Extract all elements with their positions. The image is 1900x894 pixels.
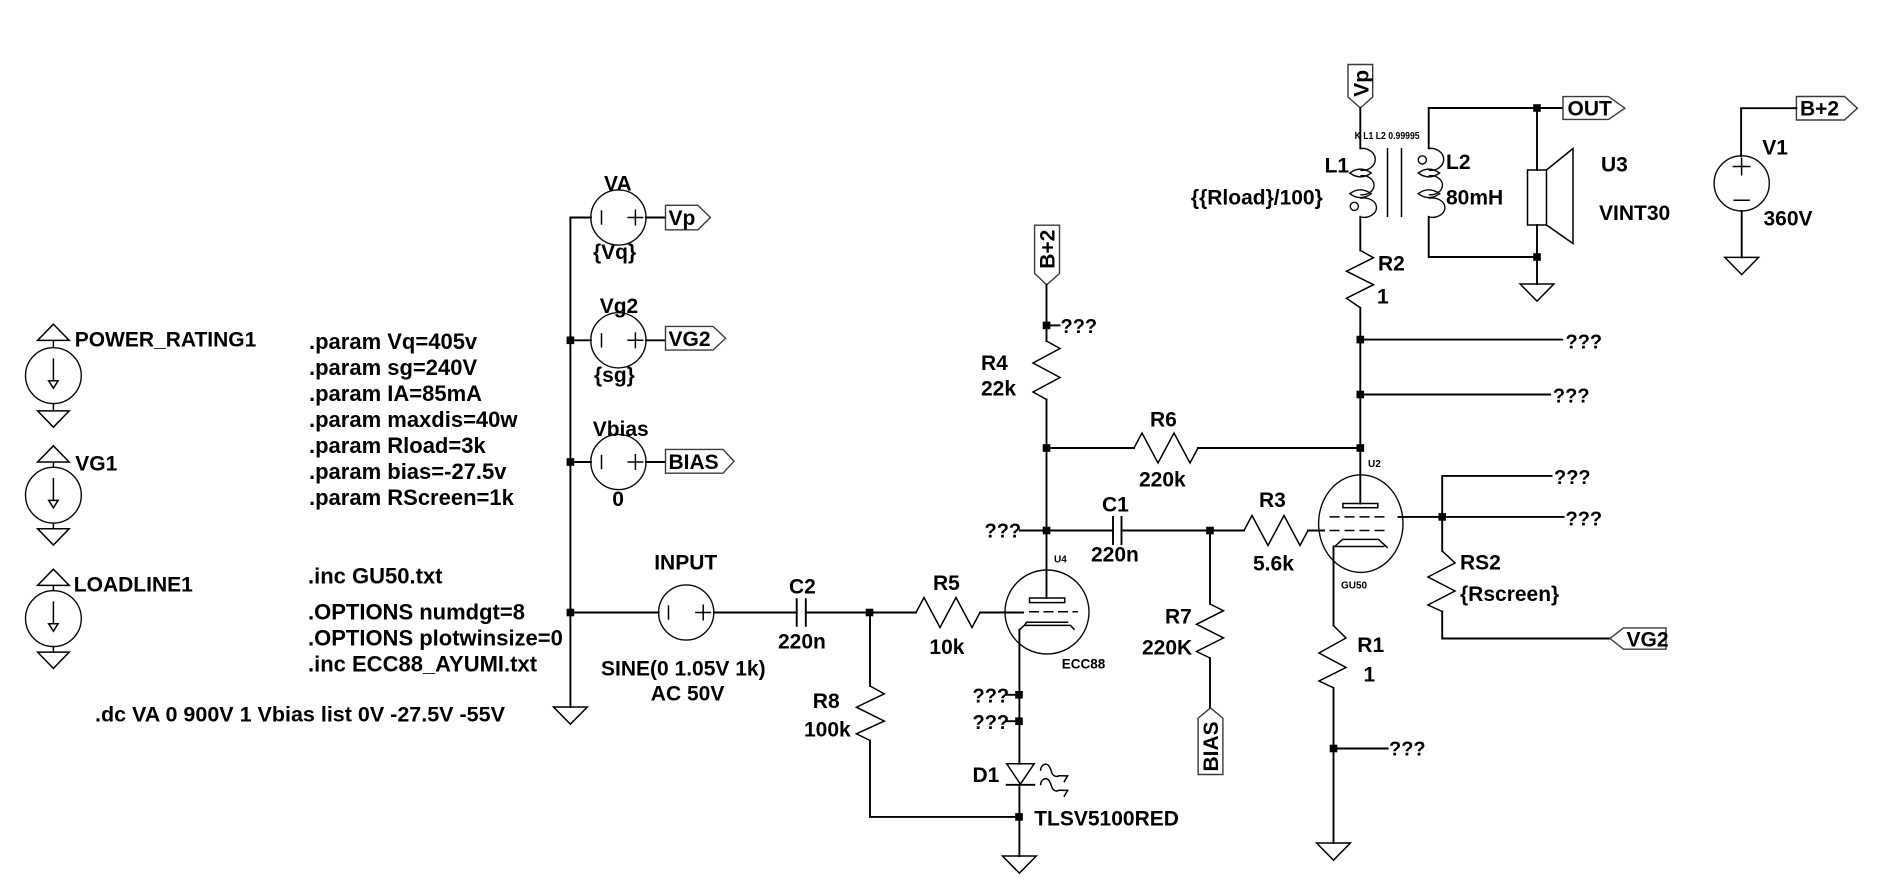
svg-text:Vg2: Vg2 [600, 295, 639, 318]
flag B+2 down [1035, 225, 1060, 285]
U4 plate [1030, 598, 1065, 603]
flag B+2 right top [1796, 97, 1857, 121]
transformer core [1388, 148, 1402, 217]
flag VG2 right [666, 326, 726, 351]
wire V1 to ground [1741, 211, 1743, 257]
svg-text:L1: L1 [1325, 155, 1350, 178]
svg-text:1: 1 [1364, 664, 1376, 687]
U2 plate [1343, 504, 1378, 508]
junction U2 plate node [1357, 444, 1365, 452]
capacitor C1 [1113, 517, 1122, 544]
svg-text:K L1 L2 0.99995: K L1 L2 0.99995 [1355, 131, 1420, 142]
wire C1 left [1047, 530, 1114, 532]
svg-text:R1: R1 [1357, 634, 1384, 657]
wire C1 right [1122, 530, 1245, 532]
wire R8 bottom [870, 741, 1019, 817]
D1 light arrow 1 [1041, 764, 1068, 782]
svg-text:ECC88: ECC88 [1062, 657, 1106, 672]
wire Vg2 left stub [570, 339, 591, 341]
junction speaker bottom [1533, 253, 1541, 261]
svg-text:SINE(0 1.05V 1k): SINE(0 1.05V 1k) [601, 657, 766, 680]
wire B+2 node stub [1047, 324, 1060, 326]
wire to D1 [1018, 721, 1020, 764]
svg-text:Vp: Vp [669, 207, 696, 230]
wire R1 sense [1334, 748, 1388, 750]
flag VG2 left [1610, 628, 1669, 651]
ground below R1 [1317, 843, 1351, 860]
wire Vbias left stub [570, 461, 591, 463]
voltage source VA [591, 190, 646, 245]
svg-text:VG2: VG2 [669, 328, 711, 351]
svg-text:.dc VA 0 900V 1 Vbias list 0V: .dc VA 0 900V 1 Vbias list 0V -27.5V -55… [95, 703, 506, 727]
wire L2 top to OUT [1429, 108, 1563, 148]
svg-text:B+2: B+2 [1036, 230, 1059, 269]
junction B+2 node [1043, 322, 1051, 330]
junction R3 R7 node [1206, 527, 1214, 535]
resistor R4 [1033, 341, 1060, 400]
svg-text:.param maxdis=40w: .param maxdis=40w [309, 407, 518, 432]
wire C2 to node [806, 612, 916, 614]
svg-text:.OPTIONS numdgt=8: .OPTIONS numdgt=8 [308, 599, 525, 624]
svg-text:???: ??? [1566, 332, 1603, 354]
svg-text:.param RScreen=1k: .param RScreen=1k [309, 485, 515, 510]
inductor L1 [1350, 148, 1377, 217]
svg-text:R6: R6 [1150, 409, 1177, 432]
svg-text:???: ??? [985, 521, 1022, 543]
svg-text:R5: R5 [933, 572, 960, 595]
svg-text:OUT: OUT [1568, 98, 1613, 121]
junction input line tap [567, 609, 575, 617]
wire R1 bottom [1333, 688, 1335, 843]
wire screen sense right [1442, 516, 1563, 518]
svg-text:VA: VA [604, 173, 632, 196]
wire R3 to U2 grid [1308, 530, 1324, 532]
svg-text:360V: 360V [1764, 208, 1813, 231]
wire R6 right [1198, 447, 1360, 449]
wire Vbias right stub [646, 461, 666, 463]
speaker U3 [1528, 149, 1574, 244]
svg-text:V1: V1 [1762, 137, 1788, 160]
svg-text:C2: C2 [789, 575, 816, 598]
svg-text:R8: R8 [813, 690, 840, 713]
resistor R2 [1347, 250, 1374, 307]
svg-text:VINT30: VINT30 [1599, 202, 1670, 225]
svg-text:R3: R3 [1259, 489, 1286, 512]
current source POWER_RATING1 [26, 324, 82, 427]
current source VG1 [26, 446, 82, 545]
wire R6 left [1047, 447, 1135, 449]
svg-text:BIAS: BIAS [669, 451, 719, 474]
svg-text:B+2: B+2 [1800, 98, 1839, 121]
resistor R3 [1244, 516, 1308, 546]
wire L1 to R2 [1359, 217, 1361, 251]
wire B+2 to R4 [1046, 285, 1048, 341]
svg-text:.inc ECC88_AYUMI.txt: .inc ECC88_AYUMI.txt [308, 651, 538, 676]
svg-text:22k: 22k [981, 378, 1016, 401]
wire RS2 to VG2 flag [1442, 612, 1610, 639]
junction sense node 1 [1357, 336, 1365, 344]
svg-text:???: ??? [973, 712, 1010, 734]
wire U2 cathode lead [1333, 547, 1335, 626]
current source LOADLINE1 [26, 569, 82, 668]
resistor R7 [1197, 604, 1224, 658]
junction R8 tap [866, 609, 874, 617]
inductor L2 [1418, 148, 1445, 217]
svg-text:???: ??? [1566, 509, 1603, 531]
svg-text:VG2: VG2 [1627, 628, 1669, 651]
U4 cathode [1020, 622, 1075, 630]
svg-text:TLSV5100RED: TLSV5100RED [1034, 808, 1179, 831]
wire VA left stub [570, 217, 591, 219]
svg-text:.inc GU50.txt: .inc GU50.txt [308, 563, 443, 588]
wire node B stub [1006, 720, 1019, 722]
svg-text:.param IA=85mA: .param IA=85mA [309, 381, 482, 406]
svg-text:Vbias: Vbias [593, 418, 649, 441]
wire R5 to U4 grid [980, 612, 1023, 614]
voltage source INPUT [659, 585, 714, 640]
svg-text:R4: R4 [981, 352, 1008, 375]
wire U2 screen lead [1399, 516, 1443, 518]
voltage source Vg2 [591, 313, 646, 368]
wire R8 top [869, 613, 871, 687]
wire sense 1 [1360, 339, 1562, 341]
svg-text:10k: 10k [929, 636, 964, 659]
junction cathode node A [1015, 691, 1023, 699]
wire R2 to U2 plate [1359, 308, 1361, 504]
wire screen sense up [1442, 476, 1551, 517]
junction cathode node B [1015, 717, 1023, 725]
junction sense node 2 [1357, 391, 1365, 399]
wire L2 bottom [1429, 217, 1537, 257]
svg-text:???: ??? [1389, 739, 1426, 761]
wire Vg2 right stub [646, 339, 666, 341]
ground below left bus [554, 707, 588, 724]
junction C1 node [1043, 527, 1051, 535]
svg-text:1: 1 [1377, 286, 1389, 309]
svg-text:5.6k: 5.6k [1253, 553, 1294, 576]
wire screen to RS2 [1441, 517, 1443, 551]
U4 grid dashed [1029, 611, 1078, 613]
svg-text:D1: D1 [973, 764, 1000, 787]
svg-text:.param sg=240V: .param sg=240V [309, 355, 477, 380]
wire B+2 to V1 [1741, 108, 1796, 156]
junction U2 screen node [1438, 513, 1446, 521]
U2 screen grid dashed [1330, 516, 1388, 518]
wire sense 2 [1360, 394, 1550, 396]
svg-text:{Rscreen}: {Rscreen} [1460, 583, 1559, 606]
svg-text:.param bias=-27.5v: .param bias=-27.5v [309, 459, 507, 484]
svg-text:BIAS: BIAS [1200, 721, 1223, 771]
svg-text:U2: U2 [1368, 459, 1381, 470]
ground below D1 [1003, 856, 1037, 873]
wire node A stub [1006, 694, 1019, 696]
resistor R1 [1319, 626, 1346, 688]
svg-text:L2: L2 [1446, 151, 1471, 174]
voltage source Vbias [591, 434, 646, 489]
svg-text:???: ??? [1061, 316, 1098, 338]
L1 phase dot [1350, 202, 1358, 210]
svg-text:80mH: 80mH [1446, 187, 1503, 210]
svg-text:R2: R2 [1378, 253, 1405, 276]
svg-text:100k: 100k [804, 719, 851, 742]
ground below speaker [1520, 284, 1554, 301]
flag BIAS right [666, 449, 735, 474]
diode D1 LED [1007, 764, 1034, 785]
resistor R6 [1134, 433, 1198, 463]
flag OUT right [1563, 97, 1625, 121]
resistor R8 [856, 686, 884, 741]
L2 phase dot [1418, 156, 1426, 164]
junction R6 tap [1043, 444, 1051, 452]
svg-text:GU50: GU50 [1341, 581, 1368, 592]
wire U4 plate lead [1046, 531, 1048, 599]
wire ??? d stub [1020, 530, 1047, 532]
D1 light arrow 2 [1041, 779, 1068, 797]
ground below V1 [1725, 257, 1759, 274]
junction R1 sense node [1330, 745, 1338, 753]
svg-text:Vp: Vp [1350, 70, 1373, 97]
svg-text:???: ??? [1553, 386, 1590, 408]
svg-text:.OPTIONS plotwinsize=0: .OPTIONS plotwinsize=0 [308, 625, 563, 650]
svg-text:U3: U3 [1601, 154, 1628, 177]
svg-text:{{Rload}/100}: {{Rload}/100} [1191, 187, 1323, 210]
flag BIAS up [1198, 708, 1223, 775]
svg-text:LOADLINE1: LOADLINE1 [74, 573, 193, 596]
svg-text:220n: 220n [1091, 544, 1139, 567]
voltage source V1 [1714, 156, 1769, 211]
svg-text:???: ??? [1554, 467, 1591, 489]
U2 control grid dashed [1330, 530, 1388, 532]
svg-text:0: 0 [612, 488, 624, 511]
flag Vp down [1348, 65, 1373, 109]
capacitor C2 [797, 599, 806, 626]
U2 cathode [1335, 539, 1388, 547]
triode U4 envelope [1005, 570, 1089, 654]
svg-text:???: ??? [973, 686, 1010, 708]
svg-text:U4: U4 [1054, 555, 1067, 566]
flag Vp right [666, 205, 711, 230]
wire main left vertical bus [569, 218, 571, 708]
svg-text:VG1: VG1 [75, 452, 117, 475]
svg-text:220K: 220K [1142, 637, 1192, 660]
svg-text:.param Vq=405v: .param Vq=405v [309, 329, 478, 354]
wire R7 top [1209, 531, 1211, 605]
svg-text:220k: 220k [1139, 469, 1186, 492]
spice directive .param block [309, 329, 518, 510]
junction Vbias tap [567, 458, 575, 466]
svg-text:RS2: RS2 [1460, 552, 1501, 575]
wire Vp to L1 [1359, 108, 1361, 148]
resistor R5 [916, 598, 980, 628]
wire input left [570, 612, 658, 614]
svg-text:R7: R7 [1165, 606, 1192, 629]
wire speaker bottom [1536, 225, 1538, 284]
junction Vg2 tap [567, 337, 575, 345]
svg-text:.param Rload=3k: .param Rload=3k [309, 433, 486, 458]
wire D1 to ground [1018, 785, 1020, 856]
svg-text:{Vq}: {Vq} [593, 241, 636, 264]
wire U4 cathode lead [1018, 630, 1020, 722]
wire R4 to C1 node [1046, 400, 1048, 531]
svg-text:AC 50V: AC 50V [651, 682, 725, 705]
svg-text:POWER_RATING1: POWER_RATING1 [75, 328, 257, 351]
svg-text:INPUT: INPUT [654, 551, 717, 574]
junction D1 bottom [1015, 813, 1023, 821]
junction OUT node [1533, 104, 1541, 112]
wire R7 to BIAS flag [1209, 658, 1211, 708]
wire OUT node to speaker [1536, 108, 1538, 170]
svg-text:{sg}: {sg} [594, 364, 635, 387]
svg-text:220n: 220n [778, 630, 826, 653]
svg-text:C1: C1 [1102, 494, 1129, 517]
wire VA right stub [646, 217, 666, 219]
wire input to C2 [714, 612, 797, 614]
pentode U2 envelope [1319, 475, 1403, 573]
resistor RS2 [1428, 551, 1455, 612]
